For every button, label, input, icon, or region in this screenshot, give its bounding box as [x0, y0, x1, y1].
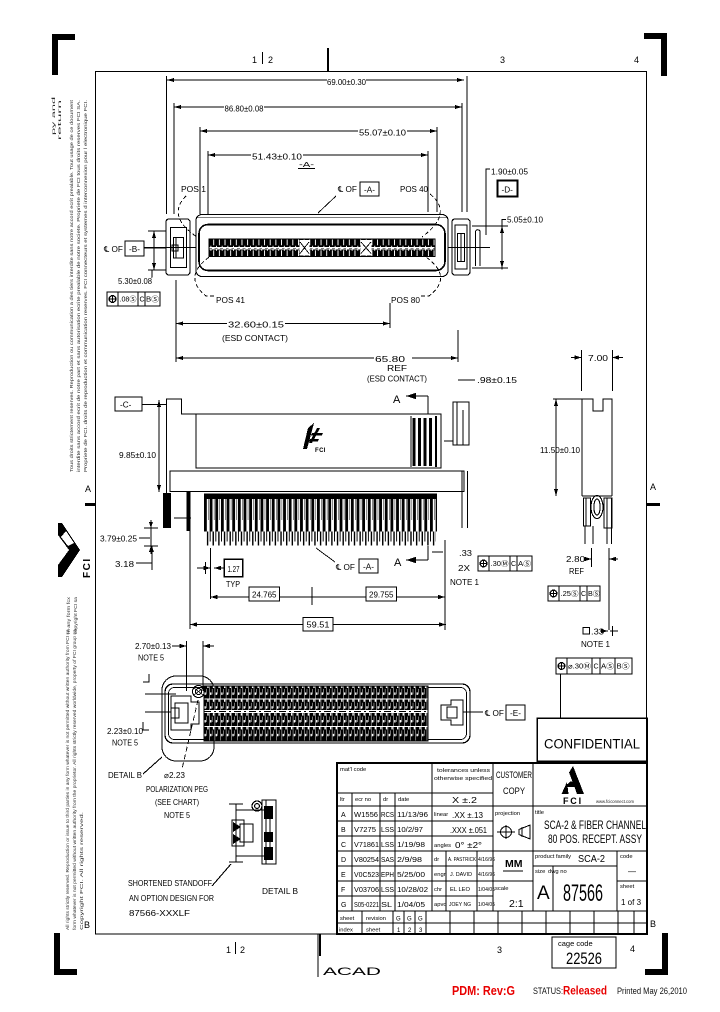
svg-text:1/04/05: 1/04/05: [478, 902, 495, 908]
dim square .33 NOTE 1: [581, 626, 618, 649]
svg-text:1 of 3: 1 of 3: [621, 898, 642, 907]
svg-text:55.07±0.10: 55.07±0.10: [359, 129, 407, 138]
svg-text:℄ OF: ℄ OF: [335, 563, 355, 572]
svg-text:POS 40: POS 40: [400, 185, 428, 194]
DETAIL B enlarged view: [229, 800, 276, 864]
svg-text:AⓈ: AⓈ: [601, 663, 614, 671]
svg-text:FCI: FCI: [563, 796, 583, 806]
svg-text:SAS: SAS: [381, 857, 394, 864]
size / dwg no: [535, 869, 642, 907]
dim 65.80 REF (ESD CONTACT): [176, 330, 458, 384]
left margin small note under logo: [66, 596, 78, 634]
dim 2.80 REF: [566, 548, 618, 630]
dim 1.90±0.05 leader: [486, 168, 528, 236]
svg-text:C: C: [581, 591, 586, 598]
svg-text:0° ±2°: 0° ±2°: [455, 841, 482, 850]
svg-text:CONFIDENTIAL: CONFIDENTIAL: [544, 737, 640, 752]
svg-text:REF: REF: [387, 364, 407, 373]
dim 3.18: [115, 546, 154, 570]
svg-text:3.79±0.25: 3.79±0.25: [100, 535, 137, 544]
svg-text:www.fciconnect.com: www.fciconnect.com: [596, 799, 634, 804]
title block texts: headers: [340, 767, 492, 782]
top view pin row upper: [196, 217, 448, 257]
svg-text:W1556: W1556: [354, 812, 378, 819]
svg-text:87566: 87566: [563, 880, 603, 907]
svg-text:py and: py and: [51, 95, 56, 135]
bottom index cells verticals: [362, 911, 634, 934]
FCF dia .30 M C A S B S: [556, 658, 632, 674]
svg-text:(ESD CONTACT): (ESD CONTACT): [367, 375, 427, 384]
svg-text:JOEY NG: JOEY NG: [449, 902, 471, 908]
tolerance values: [434, 796, 487, 850]
svg-text:revision: revision: [366, 916, 386, 922]
svg-text:⌀2.23: ⌀2.23: [164, 771, 185, 780]
FCI logo inside body: [303, 423, 326, 454]
svg-text:Tous droits strictement reserv: Tous droits strictement reserves. Reprod…: [69, 99, 74, 472]
svg-text:POS 1: POS 1: [181, 185, 206, 194]
horizontals: [337, 792, 493, 794]
dim 1.27 TYP: [197, 548, 243, 599]
svg-text:-A-: -A-: [364, 186, 375, 195]
svg-text:apvd: apvd: [434, 902, 447, 908]
svg-text:dr: dr: [434, 857, 439, 863]
svg-text:.08Ⓢ: .08Ⓢ: [120, 296, 137, 304]
right side: [533, 805, 647, 807]
svg-text:size: size: [535, 869, 545, 875]
svg-text:A: A: [537, 883, 550, 904]
bottom view left latch: [171, 696, 199, 730]
svg-text:86.80±0.08: 86.80±0.08: [225, 105, 264, 114]
svg-text:A. PASTRICK: A. PASTRICK: [448, 857, 476, 863]
svg-text:C: C: [140, 297, 145, 304]
verticals main: [431, 763, 433, 911]
left margin legal text column lower: [65, 628, 84, 930]
svg-text:1: 1: [252, 55, 257, 65]
customer copy: [496, 770, 532, 797]
svg-text:9.85±0.10: 9.85±0.10: [119, 451, 156, 460]
top view body outer shell: [196, 215, 448, 277]
dim 24.765: [211, 587, 367, 605]
svg-text:DETAIL B: DETAIL B: [108, 771, 143, 780]
left margin legal text column 1: [51, 95, 88, 472]
svg-text:ecr no: ecr no: [355, 797, 371, 803]
datum -C- box: [115, 397, 166, 411]
dim 69.00±0.30: [167, 76, 468, 214]
label CL OF -E-: [463, 705, 525, 720]
top view centerline: [144, 247, 196, 249]
svg-text:AⓈ: AⓈ: [518, 560, 531, 568]
svg-text:B: B: [650, 919, 656, 929]
label CL OF -A- (top): [318, 182, 379, 213]
svg-text:FCI: FCI: [82, 557, 93, 578]
svg-text:SCA-2 & FIBER CHANNEL: SCA-2 & FIBER CHANNEL: [544, 818, 646, 832]
svg-text:angles: angles: [434, 843, 451, 849]
registration mark top-right: [644, 33, 667, 76]
svg-text:POLARIZATION PEG: POLARIZATION PEG: [146, 785, 208, 794]
svg-text:-C-: -C-: [120, 401, 132, 410]
svg-text:X ±.2: X ±.2: [452, 796, 478, 805]
ESD contact breaks: [300, 240, 372, 256]
svg-text:.XXX ±.051: .XXX ±.051: [450, 826, 487, 835]
svg-text:RCS: RCS: [381, 812, 394, 819]
svg-text:B: B: [341, 827, 346, 834]
svg-text:Propriete de FCI. droits de r: Propriete de FCI. droits de reproduction…: [83, 100, 88, 472]
front view flange: [170, 471, 464, 492]
dim 86.80±0.08: [174, 103, 462, 214]
rev table header: [340, 797, 409, 803]
svg-text:sheet: sheet: [620, 884, 635, 890]
dim 51.43±0.10 with -A- basic: [208, 151, 428, 214]
svg-text:4/16/96: 4/16/96: [478, 872, 495, 878]
svg-text:BⓈ: BⓈ: [617, 663, 630, 671]
label POS 80: [391, 255, 441, 305]
svg-text:CUSTOMER: CUSTOMER: [496, 770, 532, 781]
left margin FCI logo (rotated): [58, 523, 93, 578]
dim 11.50±0.10: [540, 399, 580, 496]
leader dia 2.23 polarization peg: [146, 700, 208, 820]
svg-text:G: G: [407, 917, 412, 923]
polarization peg: [193, 686, 205, 698]
svg-text:2:1: 2:1: [509, 898, 524, 910]
svg-text:V03706: V03706: [354, 887, 379, 894]
svg-text:2.80: 2.80: [566, 555, 586, 564]
front view left bracket: [167, 399, 197, 493]
zone labels bottom: [226, 942, 635, 955]
section hatch at right of body: [411, 416, 436, 467]
svg-text:V80254: V80254: [354, 857, 379, 864]
dim 5.05±0.10: [472, 216, 543, 270]
registration mark bottom-left: [54, 933, 77, 975]
svg-text:C: C: [341, 842, 346, 849]
svg-text:2X: 2X: [458, 564, 471, 573]
rev table columns: [351, 793, 353, 911]
front view left end pin (black bar): [163, 493, 171, 528]
svg-text:5.05±0.10: 5.05±0.10: [507, 216, 543, 225]
svg-text:V0C523: V0C523: [354, 872, 379, 879]
svg-text:SCA-2: SCA-2: [578, 854, 605, 865]
svg-text:tolerances unless: tolerances unless: [437, 768, 490, 774]
svg-text:℄ OF: ℄ OF: [337, 185, 357, 194]
svg-text:projection: projection: [495, 811, 520, 817]
product family row: [535, 854, 636, 876]
note shortened standoff: [128, 864, 231, 918]
svg-text:C: C: [594, 664, 599, 671]
svg-text:E: E: [341, 872, 346, 879]
dim 9.85±0.10: [119, 400, 161, 492]
dim 7.00: [571, 350, 623, 391]
svg-text:2: 2: [268, 55, 273, 65]
svg-text:MM: MM: [505, 858, 523, 870]
dim 2.23±0.10 NOTE 5: [107, 727, 143, 748]
svg-text:24.765: 24.765: [252, 591, 277, 600]
svg-text:87566-XXXLF: 87566-XXXLF: [129, 909, 190, 918]
side view body: [582, 399, 612, 496]
svg-text:59.51: 59.51: [307, 621, 330, 630]
front view right end detail: [444, 402, 469, 528]
title text: [535, 810, 646, 846]
svg-text:(ESD CONTACT): (ESD CONTACT): [222, 334, 288, 343]
PDM footer: [452, 983, 687, 998]
svg-text:product family: product family: [535, 854, 571, 860]
svg-text:BⓈ: BⓈ: [588, 590, 600, 598]
svg-text:V71861: V71861: [354, 842, 379, 849]
svg-text:form whatever is not permitted: form whatever is not permitted without w…: [72, 628, 77, 930]
label POS 41: [195, 255, 246, 305]
svg-text:3: 3: [500, 55, 505, 65]
detail B loop: [162, 676, 214, 761]
svg-text:ACAD: ACAD: [323, 966, 381, 978]
drawing frame: [96, 72, 647, 935]
svg-text:COPY: COPY: [503, 786, 526, 797]
svg-text:mat'l code: mat'l code: [340, 767, 366, 773]
svg-text:℄ OF: ℄ OF: [103, 245, 123, 254]
cage code box: [552, 937, 616, 968]
svg-text:.33: .33: [459, 549, 472, 558]
svg-text:otherwise specified: otherwise specified: [434, 776, 492, 782]
svg-text:-B-: -B-: [129, 245, 140, 254]
svg-text:cage code: cage code: [558, 939, 593, 948]
dim 29.755: [366, 552, 445, 630]
svg-text:index: index: [339, 928, 353, 934]
svg-text:SL: SL: [381, 902, 392, 909]
svg-text:F: F: [341, 887, 345, 894]
svg-text:4: 4: [634, 55, 639, 65]
sheet revision row: [339, 916, 423, 934]
dim 55.07±0.10: [200, 127, 437, 214]
side view lower detail: [582, 496, 612, 545]
dim 2.70±0.13 NOTE 5: [135, 641, 214, 691]
svg-text:2.70±0.13: 2.70±0.13: [135, 642, 171, 651]
front view first contact bar: [187, 492, 191, 531]
svg-text:EL LEO: EL LEO: [450, 887, 470, 893]
svg-text:22526: 22526: [566, 949, 602, 968]
registration mark bottom-right: [645, 933, 668, 975]
svg-text:1/04/05: 1/04/05: [478, 887, 495, 893]
front view pin top band: [204, 494, 437, 500]
svg-text:.98±0.15: .98±0.15: [477, 376, 518, 385]
svg-text:BⓈ: BⓈ: [146, 296, 159, 304]
svg-text:LSS: LSS: [381, 887, 394, 894]
label CL OF -B- (left): [103, 241, 166, 256]
top view left end cap: [166, 219, 190, 275]
svg-text:sheet: sheet: [340, 916, 355, 922]
svg-text:2: 2: [240, 945, 245, 955]
dim .33 2X NOTE 1: [432, 540, 479, 587]
svg-text:.25Ⓢ: .25Ⓢ: [561, 590, 579, 598]
svg-text:A: A: [650, 482, 656, 492]
svg-text:10/28/02: 10/28/02: [397, 887, 428, 894]
label POS 40: [400, 185, 440, 237]
svg-text:A: A: [393, 394, 401, 406]
CONFIDENTIAL box: [537, 718, 647, 761]
svg-text:STATUS:: STATUS:: [533, 986, 563, 996]
svg-text:3: 3: [497, 945, 502, 955]
registration mark top-left: [52, 34, 75, 75]
top view right end cap: [452, 219, 470, 275]
svg-text:-D-: -D-: [502, 186, 514, 195]
svg-text:⌀.30Ⓜ: ⌀.30Ⓜ: [568, 663, 591, 671]
svg-text:D: D: [341, 857, 346, 864]
svg-text:Released: Released: [563, 984, 607, 998]
svg-text:Copyright FCI. All rights res: Copyright FCI. All rights reserved.: [79, 812, 84, 930]
FCF position .08 S C B S: [107, 292, 160, 306]
zone labels top: [252, 52, 639, 65]
svg-text:return: return: [57, 98, 62, 140]
dim 32.60±0.15 (ESD CONTACT): [176, 280, 390, 362]
svg-text:V7275: V7275: [354, 827, 376, 834]
svg-text:32.60±0.15: 32.60±0.15: [228, 321, 285, 330]
svg-text:LSS: LSS: [381, 827, 394, 834]
zone row letters: [84, 482, 656, 930]
label CL OF -A- (bottom): [316, 548, 378, 573]
approval rows: [434, 857, 495, 908]
ACAD stamp: [318, 934, 381, 978]
svg-text:NOTE 5: NOTE 5: [138, 654, 164, 663]
svg-text:1.27: 1.27: [228, 565, 240, 574]
section arrow A (bottom): [394, 546, 428, 569]
svg-text:-A-: -A-: [299, 162, 315, 169]
svg-text:chr: chr: [434, 887, 442, 893]
svg-text:AN OPTION DESIGN FOR: AN OPTION DESIGN FOR: [129, 894, 214, 903]
svg-text:.30Ⓜ: .30Ⓜ: [491, 560, 509, 568]
FCI logo block: [562, 766, 635, 806]
bottom view body: [165, 684, 470, 743]
svg-text:ltr: ltr: [340, 797, 345, 803]
svg-text:-A-: -A-: [363, 563, 374, 572]
datum -D- box: [498, 181, 518, 197]
FCF .25 S C B S: [548, 586, 600, 601]
svg-text:J. DAVID: J. DAVID: [450, 872, 472, 878]
bottom view contact field: [204, 686, 428, 741]
svg-text:65.80: 65.80: [375, 355, 406, 364]
svg-text:C: C: [511, 561, 516, 568]
svg-text:POS 80: POS 80: [391, 296, 420, 305]
svg-text:DETAIL B: DETAIL B: [262, 887, 299, 896]
label DETAIL B (view): [108, 757, 162, 780]
svg-text:1: 1: [226, 945, 231, 955]
svg-text:.XX ±.13: .XX ±.13: [452, 811, 484, 820]
svg-text:S05-0221: S05-0221: [354, 902, 379, 909]
svg-text:3.18: 3.18: [115, 560, 135, 569]
svg-text:-E-: -E-: [510, 709, 521, 718]
front view pin block: [204, 499, 437, 532]
svg-text:2.23±0.10: 2.23±0.10: [107, 727, 143, 736]
svg-text:PDM: Rev:G: PDM: Rev:G: [452, 983, 515, 998]
svg-text:LSS: LSS: [381, 842, 394, 849]
svg-text:5.30±0.08: 5.30±0.08: [118, 277, 152, 286]
zone boundary ticks: [85, 48, 660, 956]
top extension line for 11.50: [553, 398, 582, 400]
rev rows: [341, 812, 428, 909]
svg-text:interdite sans accord ecrit de: interdite sans accord ecrit de notre par…: [76, 100, 81, 472]
svg-text:69.00±0.30: 69.00±0.30: [327, 78, 366, 87]
svg-text:G: G: [396, 917, 401, 923]
svg-text:dr: dr: [383, 797, 388, 803]
svg-text:B: B: [84, 920, 90, 930]
svg-text:11.50±0.10: 11.50±0.10: [540, 446, 580, 455]
leader .98±0.15: [458, 376, 518, 385]
svg-text:SHORTENED STANDOFF: SHORTENED STANDOFF: [128, 879, 212, 888]
svg-text:dwg no: dwg no: [548, 869, 567, 875]
svg-text:engr: engr: [434, 872, 446, 878]
svg-text:TYP: TYP: [226, 580, 240, 589]
svg-text:—: —: [628, 867, 636, 876]
svg-text:REF: REF: [569, 567, 584, 576]
svg-text:Printed May 26,2010: Printed May 26,2010: [617, 986, 687, 996]
svg-text:A: A: [85, 484, 91, 494]
svg-text:scale: scale: [495, 886, 509, 892]
svg-text:code: code: [620, 854, 633, 860]
svg-text:1/04/05: 1/04/05: [397, 902, 425, 909]
dim 5.30±0.08: [118, 231, 166, 286]
svg-text:NOTE 1: NOTE 1: [450, 578, 479, 587]
dim 3.79±0.25: [100, 520, 158, 554]
svg-text:11/13/96: 11/13/96: [397, 812, 428, 819]
label POS 1: [178, 185, 206, 237]
svg-text:80 POS. RECEPT. ASSY: 80 POS. RECEPT. ASSY: [548, 832, 642, 846]
svg-text:5/25/00: 5/25/00: [397, 872, 425, 879]
svg-text:1.90±0.05: 1.90±0.05: [491, 168, 528, 177]
svg-text:G: G: [341, 902, 346, 909]
svg-text:2/9/98: 2/9/98: [397, 857, 422, 864]
front view body: [196, 414, 441, 468]
front view pin tails: [205, 532, 436, 546]
svg-text:All rights strictly reserved.: All rights strictly reserved. Reproducti…: [65, 628, 70, 930]
svg-text:EPH: EPH: [381, 872, 394, 879]
svg-text:A: A: [394, 557, 402, 569]
svg-text:POS 41: POS 41: [216, 296, 245, 305]
svg-text:G: G: [418, 917, 423, 923]
svg-text:7.00: 7.00: [588, 354, 609, 363]
svg-text:10/2/97: 10/2/97: [397, 827, 423, 834]
section arrow A (top): [393, 393, 428, 414]
svg-text:title: title: [535, 810, 544, 816]
svg-text:℄ OF: ℄ OF: [484, 709, 504, 718]
title block grid: [337, 763, 647, 934]
svg-text:29.755: 29.755: [369, 591, 394, 600]
svg-text:A: A: [341, 812, 346, 819]
svg-text:NOTE 5: NOTE 5: [164, 811, 190, 820]
bottom view right latch: [441, 700, 463, 725]
svg-text:NOTE 1: NOTE 1: [581, 640, 610, 649]
approval sub columns: [445, 851, 447, 911]
projection cell: [495, 811, 530, 839]
svg-text:(SEE CHART): (SEE CHART): [155, 798, 199, 807]
leader to confidential: [560, 674, 562, 719]
svg-text:sheet: sheet: [366, 928, 381, 934]
svg-text:1/19/98: 1/19/98: [397, 842, 425, 849]
extension marks for 2.23: [143, 674, 149, 682]
svg-text:51.43±0.10: 51.43±0.10: [252, 153, 303, 162]
svg-text:4: 4: [630, 944, 635, 954]
scale cell: [495, 886, 524, 910]
svg-text:date: date: [398, 797, 409, 803]
svg-text:NOTE 5: NOTE 5: [112, 739, 138, 748]
FCF .30 M C A S: [478, 556, 532, 571]
dim 59.51: [190, 530, 446, 631]
svg-text:FCI: FCI: [315, 448, 326, 454]
svg-text:linear: linear: [434, 812, 448, 818]
MM cell: [503, 858, 523, 871]
svg-text:4/16/96: 4/16/96: [478, 857, 495, 863]
